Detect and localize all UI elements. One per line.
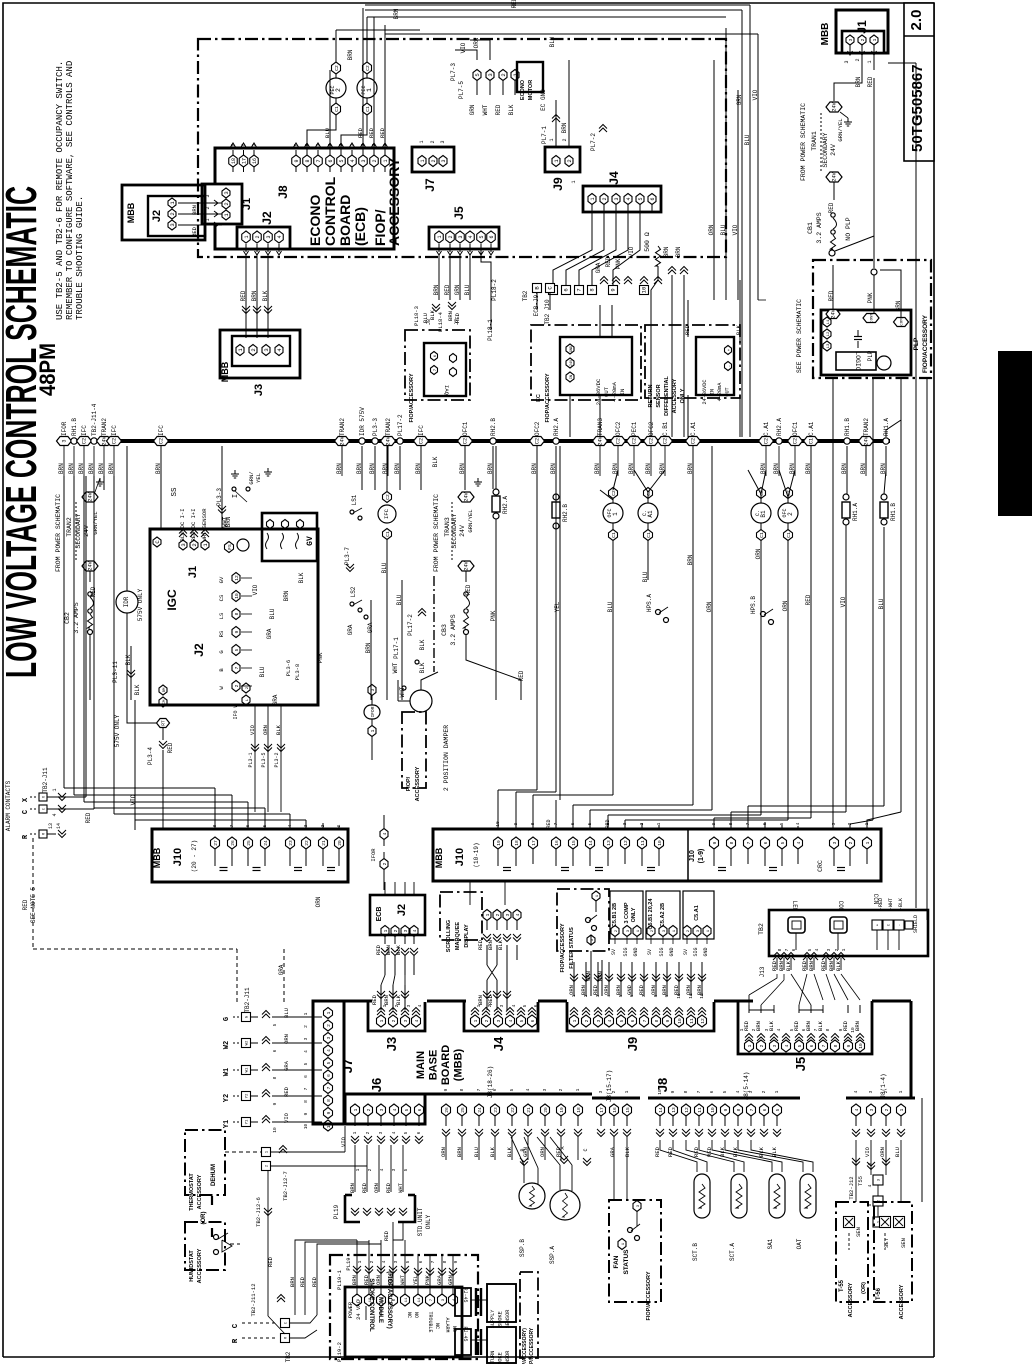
svg-text:FIOP/ACCESSORY: FIOP/ACCESSORY	[560, 923, 566, 972]
svg-text:SV: SV	[683, 949, 689, 955]
svg-text:CS: CS	[218, 594, 225, 601]
svg-text:PL7-5: PL7-5	[458, 81, 465, 99]
svg-text:SIG: SIG	[693, 947, 699, 956]
svg-text:1: 1	[476, 1004, 482, 1007]
svg-text:4: 4	[814, 948, 820, 951]
svg-text:IN: IN	[619, 389, 626, 396]
svg-text:3: 3	[596, 1019, 602, 1022]
svg-text:3.2 AMPS: 3.2 AMPS	[450, 614, 457, 645]
svg-text:ORN: ORN	[315, 896, 322, 907]
svg-text:L3: L3	[827, 343, 831, 348]
svg-text:5: 5	[775, 1108, 781, 1111]
svg-text:OAT: OAT	[796, 1238, 803, 1249]
svg-text:1: 1	[872, 38, 878, 41]
svg-text:1: 1	[575, 1088, 581, 1091]
svg-text:12: 12	[623, 840, 629, 846]
svg-text:C.A1: C.A1	[808, 421, 815, 436]
svg-text:2.0: 2.0	[908, 10, 925, 31]
svg-text:C5.A1: C5.A1	[694, 905, 700, 921]
svg-text:1: 1	[774, 1090, 780, 1093]
svg-text:J2: J2	[192, 643, 206, 657]
svg-text:-WHT: -WHT	[888, 898, 894, 910]
svg-text:9: 9	[712, 841, 718, 844]
svg-text:J10: J10	[689, 850, 696, 862]
svg-text:GRN: GRN	[736, 94, 743, 105]
svg-text:4: 4	[796, 841, 802, 844]
svg-text:MBB: MBB	[152, 847, 162, 868]
svg-text:RED: RED	[828, 290, 835, 301]
svg-text:SSP.A: SSP.A	[549, 1246, 556, 1264]
svg-text:1: 1	[355, 1168, 361, 1171]
svg-text:5: 5	[797, 1044, 803, 1047]
svg-text:24-36VDC: 24-36VDC	[595, 378, 602, 405]
svg-text:9: 9	[326, 1111, 332, 1114]
svg-text:RED: RED	[487, 994, 494, 1005]
svg-text:YEL: YEL	[554, 601, 561, 612]
svg-text:2: 2	[326, 1024, 332, 1027]
svg-text:23: 23	[493, 1107, 499, 1113]
svg-text:ECB: ECB	[376, 907, 383, 922]
svg-text:BOARD: BOARD	[337, 195, 353, 246]
svg-text:J1: J1	[855, 20, 869, 34]
svg-text:BLK: BLK	[432, 456, 439, 467]
svg-text:-RED: -RED	[878, 898, 884, 910]
svg-text:BRN: BRN	[659, 463, 666, 474]
svg-text:9: 9	[610, 288, 617, 291]
svg-text:4: 4	[515, 913, 521, 916]
svg-text:W2: W2	[223, 1041, 231, 1049]
svg-text:SUPPLY: SUPPLY	[490, 1309, 496, 1329]
svg-text:20: 20	[337, 840, 343, 846]
svg-text:RETURN: RETURN	[490, 1351, 496, 1364]
svg-text:BLU: BLU	[744, 134, 751, 145]
svg-text:3: 3	[458, 235, 464, 238]
svg-text:8: 8	[833, 1044, 839, 1047]
svg-text:2: 2	[484, 1019, 490, 1022]
svg-text:WHT: WHT	[482, 104, 489, 115]
svg-text:VIO: VIO	[249, 724, 256, 735]
svg-text:3: 3	[361, 159, 367, 162]
svg-text:7: 7	[821, 1044, 827, 1047]
svg-text:500 Ω: 500 Ω	[644, 232, 651, 252]
svg-text:1: 1	[326, 1011, 332, 1014]
svg-text:RT: RT	[161, 720, 167, 726]
svg-text:IN: IN	[710, 389, 716, 395]
svg-text:(ECB): (ECB)	[352, 207, 368, 246]
svg-text:TB2-J11-12: TB2-J11-12	[250, 1283, 257, 1316]
svg-text:ONLY: ONLY	[680, 388, 686, 403]
svg-text:OUT: OUT	[603, 386, 610, 397]
svg-text:2 POSITION DAMPER: 2 POSITION DAMPER	[443, 725, 450, 791]
svg-text:9: 9	[294, 159, 300, 162]
svg-text:GND: GND	[703, 947, 709, 956]
svg-text:DISPLAY: DISPLAY	[464, 924, 470, 948]
svg-text:RED: RED	[743, 1020, 750, 1031]
svg-text:RED: RED	[477, 939, 484, 950]
svg-text:8: 8	[589, 288, 596, 291]
svg-text:3: 3	[869, 1108, 875, 1111]
svg-text:RED: RED	[167, 742, 174, 753]
svg-text:BRN: BRN	[251, 290, 258, 301]
svg-text:CON: CON	[837, 901, 844, 912]
svg-text:SET: SET	[883, 1237, 890, 1248]
svg-text:TRAN2: TRAN2	[66, 517, 73, 537]
svg-text:T-55: T-55	[839, 1279, 845, 1292]
svg-text:11: 11	[689, 1018, 695, 1024]
svg-text:5: 5	[779, 822, 785, 825]
svg-text:POWER: POWER	[347, 1301, 354, 1318]
svg-text:SEN: SEN	[855, 1227, 862, 1237]
svg-text:1: 1	[244, 235, 250, 238]
svg-text:3: 3	[487, 73, 494, 76]
svg-text:BRN: BRN	[78, 463, 85, 474]
svg-text:G: G	[218, 650, 225, 653]
svg-text:7: 7	[696, 1090, 702, 1093]
svg-text:2: 2	[611, 1090, 617, 1093]
svg-text:C2: C2	[611, 490, 617, 496]
svg-text:BRN: BRN	[347, 49, 354, 60]
svg-text:C2: C2	[463, 438, 469, 444]
svg-text:GRN: GRN	[454, 284, 461, 295]
svg-text:2: 2	[566, 159, 573, 162]
svg-text:RED: RED	[518, 670, 525, 681]
svg-text:2: 2	[602, 197, 608, 200]
svg-text:B: B	[520, 1148, 526, 1151]
svg-text:BRN: BRN	[385, 945, 392, 955]
svg-text:FIOP/ACCESSORY: FIOP/ACCESSORY	[545, 373, 551, 422]
svg-text:J13: J13	[759, 966, 766, 977]
svg-text:(20 - 27): (20 - 27)	[191, 840, 198, 872]
svg-text:MODULE: MODULE	[377, 1297, 383, 1323]
svg-text:10: 10	[234, 593, 240, 599]
svg-text:ORN: ORN	[473, 37, 480, 48]
svg-text:7: 7	[303, 1087, 309, 1090]
svg-text:ORN: ORN	[283, 1034, 290, 1044]
svg-text:8: 8	[234, 612, 240, 615]
svg-text:BLU: BLU	[894, 1147, 901, 1157]
svg-text:ACCESSORY: ACCESSORY	[415, 766, 421, 801]
svg-text:BRN: BRN	[191, 205, 198, 215]
svg-text:8: 8	[241, 143, 247, 146]
svg-text:GND: GND	[633, 947, 639, 956]
svg-text:A: A	[560, 1146, 566, 1149]
svg-text:BLU: BLU	[464, 284, 471, 295]
svg-text:RED: RED	[805, 594, 812, 605]
svg-text:8: 8	[729, 841, 735, 844]
svg-text:4: 4	[607, 1019, 613, 1022]
svg-text:BLU: BLU	[269, 608, 276, 619]
svg-text:RH2.A: RH2.A	[502, 496, 509, 514]
svg-text:(FIOP/ACCESSORY): (FIOP/ACCESSORY)	[386, 1271, 392, 1328]
svg-text:L1: L1	[827, 319, 831, 324]
svg-text:TRAN3: TRAN3	[444, 517, 451, 537]
svg-text:3: 3	[831, 822, 837, 825]
svg-text:16: 16	[252, 158, 258, 164]
svg-text:PL7-2: PL7-2	[590, 133, 597, 151]
svg-text:HUMIDSTAT: HUMIDSTAT	[189, 1250, 195, 1282]
svg-text:PL19: PL19	[333, 1204, 340, 1219]
svg-text:3: 3	[326, 1036, 332, 1039]
svg-text:EC GND: EC GND	[540, 89, 547, 111]
svg-text:4: 4	[853, 1090, 859, 1093]
svg-text:4: 4	[511, 1004, 517, 1007]
svg-text:GRA: GRA	[266, 628, 273, 639]
svg-text:2: 2	[759, 1044, 765, 1047]
svg-text:ACCESSORY: ACCESSORY	[386, 157, 402, 246]
svg-text:BM: BM	[163, 687, 167, 692]
svg-text:RH1.B: RH1.B	[844, 418, 851, 436]
svg-text:RED: RED	[444, 284, 451, 295]
svg-text:3: 3	[370, 688, 376, 691]
svg-text:PL3-2: PL3-2	[274, 752, 280, 767]
svg-text:LS: LS	[218, 612, 225, 619]
svg-text:1: 1	[419, 140, 425, 143]
svg-text:4: 4	[315, 143, 321, 146]
svg-text:4: 4	[626, 197, 632, 200]
svg-text:6: 6	[650, 197, 656, 200]
svg-text:BRN: BRN	[98, 463, 105, 474]
svg-text:SCROLLING: SCROLLING	[446, 920, 452, 952]
svg-text:ALARM: ALARM	[444, 1317, 450, 1332]
svg-text:1: 1	[353, 1108, 359, 1111]
svg-text:5: 5	[403, 1131, 409, 1134]
svg-text:SMOKE: SMOKE	[498, 1352, 504, 1364]
svg-text:4: 4	[350, 159, 356, 162]
svg-text:2: 2	[367, 1168, 373, 1171]
svg-text:6: 6	[328, 159, 334, 162]
svg-text:BRN: BRN	[349, 1183, 356, 1193]
svg-text:13: 13	[606, 840, 612, 846]
svg-text:CB3: CB3	[441, 624, 448, 636]
svg-text:THERMOSTAT: THERMOSTAT	[189, 1173, 195, 1211]
svg-text:BRN: BRN	[675, 246, 682, 257]
svg-text:2: 2	[500, 73, 507, 76]
svg-text:(FIOP/ACCESSORY): (FIOP/ACCESSORY)	[522, 1328, 528, 1364]
svg-text:24V: 24V	[88, 491, 94, 501]
svg-text:EC: EC	[536, 394, 542, 402]
svg-text:GRA: GRA	[347, 624, 354, 635]
svg-text:GRA: GRA	[609, 1146, 616, 1157]
svg-text:C2: C2	[535, 438, 541, 444]
svg-text:3: 3	[848, 38, 854, 41]
svg-text:3: 3	[496, 1019, 502, 1022]
svg-text:2: 2	[223, 202, 230, 205]
svg-text:TB2: TB2	[285, 1351, 292, 1362]
svg-text:C5.B1 2B: C5.B1 2B	[612, 903, 618, 927]
svg-text:R: R	[232, 1338, 240, 1343]
svg-text:10: 10	[641, 287, 648, 294]
svg-text:3: 3	[440, 140, 446, 143]
svg-text:J10: J10	[172, 848, 184, 866]
svg-text:C2: C2	[649, 438, 655, 444]
svg-text:9: 9	[670, 1090, 676, 1093]
svg-text:3: 3	[542, 1088, 548, 1091]
svg-text:24V: 24V	[832, 101, 838, 111]
svg-text:GRN/YEL: GRN/YEL	[92, 511, 99, 534]
svg-text:8: 8	[303, 1100, 309, 1103]
svg-text:J9: J9	[551, 177, 565, 191]
svg-text:GRN/YEL: GRN/YEL	[837, 118, 844, 141]
svg-text:BLU: BLU	[422, 313, 429, 323]
svg-text:ACCESSORY: ACCESSORY	[848, 1282, 854, 1317]
svg-text:RH2.B: RH2.B	[562, 504, 569, 522]
svg-text:PL3-11: PL3-11	[112, 661, 119, 683]
svg-text:7: 7	[642, 1019, 648, 1022]
svg-text:11: 11	[640, 840, 646, 846]
svg-text:2: 2	[303, 1025, 309, 1028]
svg-text:BRN: BRN	[855, 76, 862, 87]
svg-text:TB2-J11-4: TB2-J11-4	[91, 403, 98, 436]
svg-text:RED: RED	[240, 290, 247, 301]
svg-text:26: 26	[444, 1107, 450, 1113]
svg-text:RED: RED	[546, 819, 552, 828]
svg-text:TB2: TB2	[758, 923, 765, 935]
svg-text:1: 1	[420, 159, 426, 162]
svg-text:13: 13	[671, 1107, 677, 1113]
svg-text:J2: J2	[260, 211, 274, 225]
svg-text:BRN: BRN	[594, 463, 601, 474]
svg-text:5: 5	[519, 1019, 525, 1022]
svg-text:WHT—SENSOR: WHT—SENSOR	[201, 508, 208, 542]
svg-text:3: 3	[832, 841, 838, 844]
svg-text:1: 1	[303, 1012, 309, 1015]
svg-text:1: 1	[382, 1004, 388, 1007]
svg-text:11: 11	[405, 1297, 409, 1302]
svg-text:VIO: VIO	[340, 1136, 347, 1147]
svg-text:6: 6	[530, 1019, 536, 1022]
svg-text:21: 21	[321, 840, 327, 846]
svg-text:ORN: ORN	[755, 548, 762, 559]
svg-text:J10: J10	[454, 848, 466, 866]
svg-text:5: 5	[807, 948, 813, 951]
svg-text:3: 3	[772, 1044, 778, 1047]
svg-text:12: 12	[684, 1107, 690, 1113]
svg-text:TB2-J11: TB2-J11	[244, 987, 251, 1013]
svg-text:MOTOR: MOTOR	[528, 80, 534, 100]
svg-text:3: 3	[505, 913, 511, 916]
svg-text:C: C	[583, 1148, 589, 1151]
svg-text:14: 14	[56, 823, 62, 829]
svg-text:J3: J3	[384, 1037, 399, 1051]
svg-text:1: 1	[656, 822, 662, 825]
svg-text:1: 1	[357, 1260, 363, 1263]
svg-text:8: 8	[825, 1028, 831, 1031]
svg-text:RED: RED	[85, 812, 92, 823]
svg-text:2: 2	[848, 841, 854, 844]
svg-text:3: 3	[180, 543, 187, 546]
svg-text:BRN: BRN	[88, 463, 95, 474]
svg-text:SCT.B: SCT.B	[692, 1243, 699, 1261]
svg-text:LS1: LS1	[351, 494, 358, 505]
svg-text:BRN: BRN	[612, 463, 619, 474]
svg-text:ONLY: ONLY	[425, 1214, 432, 1229]
svg-text:J3: J3	[253, 384, 265, 396]
svg-text:IDR 575V: IDR 575V	[359, 407, 366, 436]
svg-text:REMEMBER TO CONFIGURE SOFTWARE: REMEMBER TO CONFIGURE SOFTWARE, SEE CONT…	[65, 61, 75, 320]
svg-text:PL17-2: PL17-2	[397, 414, 404, 436]
svg-text:VIO: VIO	[130, 794, 137, 805]
svg-text:4: 4	[795, 822, 801, 825]
svg-text:23: 23	[288, 840, 294, 846]
svg-text:ONLY: ONLY	[631, 907, 637, 922]
svg-text:PL17-1: PL17-1	[393, 637, 400, 659]
svg-text:1: 1	[205, 218, 211, 221]
svg-text:FROM POWER SCHEMATIC: FROM POWER SCHEMATIC	[800, 103, 807, 181]
svg-text:15: 15	[571, 840, 577, 846]
svg-text:BLK: BLK	[624, 1146, 631, 1157]
svg-text:1: 1	[841, 948, 847, 951]
svg-text:TB2: TB2	[522, 290, 529, 301]
svg-text:RED: RED	[22, 899, 29, 910]
svg-text:9: 9	[443, 1088, 449, 1091]
svg-text:TRAN2: TRAN2	[339, 418, 346, 436]
svg-text:5: 5	[272, 1023, 278, 1026]
svg-text:J4: J4	[491, 1036, 506, 1051]
svg-text:10: 10	[858, 1043, 864, 1049]
svg-text:8: 8	[736, 1108, 742, 1111]
svg-text:-: -	[728, 365, 732, 367]
svg-text:C2: C2	[334, 65, 340, 71]
svg-text:4: 4	[784, 1044, 790, 1047]
svg-text:48PM: 48PM	[35, 343, 60, 396]
svg-text:PLP: PLP	[867, 350, 874, 361]
svg-text:10: 10	[710, 1107, 716, 1113]
svg-text:BLK—DC I-I: BLK—DC I-I	[179, 508, 186, 541]
svg-text:7: 7	[746, 841, 752, 844]
svg-text:GND: GND	[570, 346, 574, 352]
svg-text:7: 7	[316, 159, 322, 162]
svg-text:(1-9): (1-9)	[698, 849, 705, 864]
svg-text:C1: C1	[809, 438, 815, 444]
svg-text:RJ-45: RJ-45	[462, 1326, 468, 1341]
svg-text:6: 6	[533, 1004, 539, 1007]
svg-text:COM: COM	[901, 318, 905, 326]
svg-text:RED: RED	[379, 127, 386, 138]
svg-text:BASE: BASE	[428, 1050, 440, 1081]
svg-text:RED: RED	[311, 1276, 318, 1287]
svg-text:C1: C1	[646, 532, 652, 538]
svg-text:PL3-4: PL3-4	[147, 747, 154, 765]
svg-text:2: 2	[372, 159, 378, 162]
svg-text:PL3-5: PL3-5	[261, 752, 267, 767]
svg-text:RED: RED	[867, 76, 874, 87]
svg-text:J1: J1	[187, 566, 199, 578]
svg-text:3: 3	[499, 1004, 505, 1007]
svg-text:VIO: VIO	[252, 584, 259, 595]
svg-text:FIOP/: FIOP/	[406, 776, 412, 791]
svg-text:PL17-2: PL17-2	[407, 614, 414, 636]
svg-text:NC: NC	[434, 1323, 440, 1329]
svg-text:12: 12	[234, 575, 240, 581]
svg-text:IFC: IFC	[418, 425, 425, 436]
svg-text:Y2: Y2	[246, 1093, 250, 1098]
svg-text:24V: 24V	[88, 560, 94, 570]
svg-text:9: 9	[303, 1112, 309, 1115]
svg-text:4: 4	[392, 1108, 398, 1111]
svg-text:10: 10	[677, 1018, 683, 1024]
svg-text:1: 1	[898, 1090, 904, 1093]
svg-text:J9: J9	[625, 1037, 640, 1051]
svg-text:OUT: OUT	[725, 387, 731, 396]
svg-text:6: 6	[630, 1019, 636, 1022]
svg-text:BLK: BLK	[395, 944, 402, 955]
svg-text:RH2.A: RH2.A	[553, 418, 560, 436]
svg-text:Y1: Y1	[223, 1120, 231, 1128]
svg-text:TB2-J12: TB2-J12	[848, 1176, 855, 1199]
svg-text:22: 22	[510, 1107, 516, 1113]
svg-text:27: 27	[213, 840, 219, 846]
svg-text:PL3-1: PL3-1	[248, 752, 254, 767]
